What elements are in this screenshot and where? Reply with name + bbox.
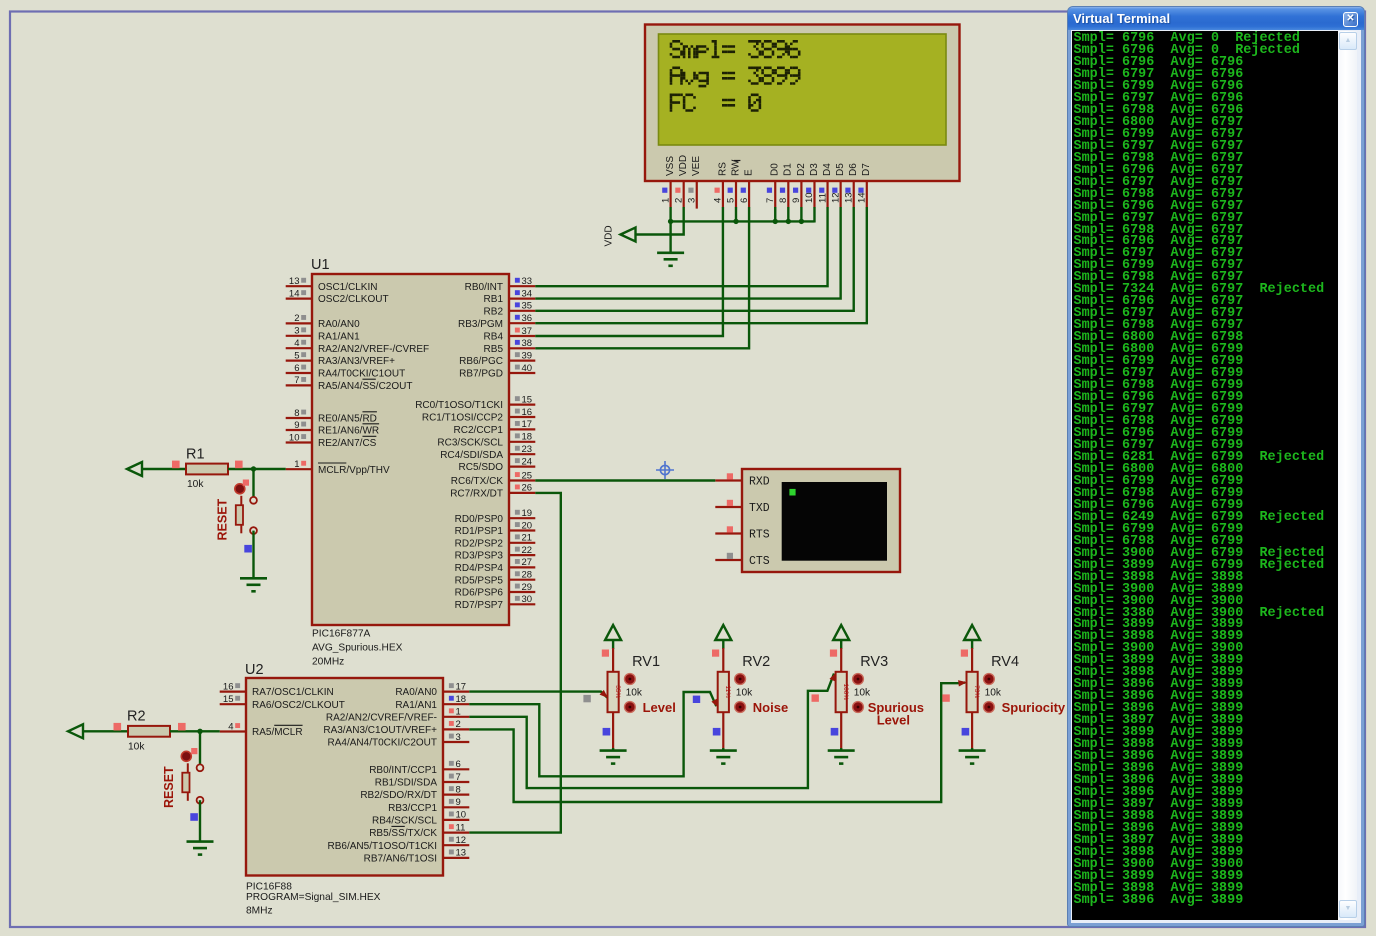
svg-text:D5: D5 xyxy=(835,163,846,176)
U1 pin 6 RA4/T0CKI/C1OUT xyxy=(286,372,312,374)
svg-text:22: 22 xyxy=(522,545,533,556)
RV3 wiper arrowhead xyxy=(829,673,836,682)
U2 pin 15 RA6/OSC2/CLKOUT xyxy=(220,703,246,705)
svg-text:4: 4 xyxy=(294,338,299,349)
LCD pin 4 RS xyxy=(722,181,724,207)
LCD screen xyxy=(659,34,947,145)
wire junction down to reset button xyxy=(252,469,254,497)
U1 pin 2 RA0/AN0 xyxy=(286,322,312,324)
svg-text:D2: D2 xyxy=(796,163,807,176)
resistor R1 body xyxy=(186,464,228,475)
U2 pin 17 RA0/AN0 xyxy=(443,690,469,692)
svg-text:RB5/SS/TX/CK: RB5/SS/TX/CK xyxy=(369,828,437,839)
svg-text:RD3/PSP3: RD3/PSP3 xyxy=(455,551,504,562)
svg-text:3: 3 xyxy=(456,732,461,743)
svg-text:6: 6 xyxy=(294,363,299,374)
svg-text:29: 29 xyxy=(522,582,533,593)
wire RB1 to LCD D5 xyxy=(535,207,840,299)
svg-text:RB6/AN5/T1OSO/T1CKI: RB6/AN5/T1OSO/T1CKI xyxy=(328,841,437,852)
U2 pin 16 RA7/OSC1/CLKIN xyxy=(220,690,246,692)
svg-text:RD4/PSP4: RD4/PSP4 xyxy=(455,563,504,574)
RV2 adjust buttons xyxy=(735,674,746,685)
power arrow above RV3 xyxy=(833,625,849,640)
svg-text:R2: R2 xyxy=(127,709,146,725)
svg-text:CTS: CTS xyxy=(749,555,770,568)
LCD pin 13 D6 xyxy=(853,181,855,207)
wire: D0(7) stub to bus xyxy=(774,207,776,223)
power arrow at R2 xyxy=(68,724,83,738)
svg-text:RV3: RV3 xyxy=(860,654,888,670)
svg-text:RESET: RESET xyxy=(162,766,176,808)
svg-text:RW: RW xyxy=(730,159,741,176)
svg-text:10: 10 xyxy=(289,432,300,443)
ground symbol (U2 reset) xyxy=(187,840,214,843)
LCD pin 7 D0 xyxy=(774,181,776,207)
svg-text:23: 23 xyxy=(522,444,533,455)
svg-text:20MHz: 20MHz xyxy=(312,657,344,668)
svg-text:RB3/PGM: RB3/PGM xyxy=(458,319,503,330)
U1 pin 35 RB2 xyxy=(509,310,535,312)
svg-text:PIC16F877A: PIC16F877A xyxy=(312,629,371,640)
svg-text:VEE: VEE xyxy=(691,156,702,176)
U2 pin 3 RA4/AN4/T0CKI/C2OUT xyxy=(443,741,469,743)
svg-text:D1: D1 xyxy=(783,163,794,176)
push button RESET (U1) xyxy=(250,497,257,504)
U1 pin 20 RD1/PSP1 xyxy=(509,529,535,531)
svg-text:RC6/TX/CK: RC6/TX/CK xyxy=(451,476,504,487)
svg-text:RC0/T1OSO/T1CKI: RC0/T1OSO/T1CKI xyxy=(415,400,503,411)
svg-text:10: 10 xyxy=(804,192,815,203)
U1 pin 23 RC4/SDI/SDA xyxy=(509,453,535,455)
svg-text:30: 30 xyxy=(522,594,533,605)
svg-text:73%: 73% xyxy=(973,685,980,698)
svg-text:100%: 100% xyxy=(842,683,849,700)
svg-text:RD5/PSP5: RD5/PSP5 xyxy=(455,575,504,586)
svg-text:RV1: RV1 xyxy=(632,654,660,670)
RV4 wiper arrowhead xyxy=(958,680,967,686)
red state squares on R2 net xyxy=(114,723,122,731)
svg-text:TXD: TXD xyxy=(749,502,770,515)
wire button to ground (U2) xyxy=(199,800,201,841)
svg-text:RA0/AN0: RA0/AN0 xyxy=(395,687,437,698)
svg-text:RB1: RB1 xyxy=(484,294,504,305)
power arrow above RV1 xyxy=(605,625,621,640)
svg-text:7: 7 xyxy=(456,772,461,783)
wire RB3 to LCD D7 xyxy=(535,207,867,323)
red state square RV4 wiper xyxy=(942,694,949,701)
LCD pin 6 E xyxy=(748,181,750,207)
svg-text:17: 17 xyxy=(456,681,467,692)
U1 pin 30 RD7/PSP7 xyxy=(509,603,535,605)
wire: D2(9) stub to bus xyxy=(800,207,802,223)
U1 pin 3 RA1/AN1 xyxy=(286,335,312,337)
op U1 PIC16F877A chip body xyxy=(312,274,509,625)
svg-text:3: 3 xyxy=(294,326,299,337)
svg-text:Level: Level xyxy=(877,713,910,728)
U2 pin 1 RA2/AN2/CVREF/VREF- xyxy=(443,716,469,718)
wire R2 to U2 pin4 xyxy=(170,730,220,732)
ground symbol (U1 reset) xyxy=(240,577,267,580)
svg-text:13: 13 xyxy=(289,276,300,287)
svg-text:16: 16 xyxy=(223,681,234,692)
wire junction down to reset button (U2) xyxy=(199,731,201,764)
svg-text:15: 15 xyxy=(223,694,234,705)
U1 pin 38 RB5 xyxy=(509,347,535,349)
svg-text:RB0/INT/CCP1: RB0/INT/CCP1 xyxy=(369,765,437,776)
svg-text:37: 37 xyxy=(522,326,533,337)
svg-text:D4: D4 xyxy=(822,163,833,176)
svg-text:RE2/AN7/CS: RE2/AN7/CS xyxy=(318,438,377,449)
svg-text:RA5/MCLR: RA5/MCLR xyxy=(252,727,303,738)
push button RESET (U2) xyxy=(197,764,204,771)
wire: D3(10) stub to bus corner xyxy=(813,207,815,223)
ground bus horizontal (VSS,RW,D0,D1,D2,D3) xyxy=(671,220,815,222)
svg-text:10k: 10k xyxy=(736,688,753,699)
svg-text:OSC1/CLKIN: OSC1/CLKIN xyxy=(318,282,377,293)
RV1 bottom terminal + ground xyxy=(612,712,614,749)
svg-text:17: 17 xyxy=(522,419,533,430)
wire U2 RA0 to RV1 wiper xyxy=(469,692,607,698)
wire: VDD(2) down then left to VDD power arrow xyxy=(635,207,684,235)
U1 pin 10 RE2/AN7/CS xyxy=(286,441,312,443)
op U2 PIC16F88 chip body xyxy=(246,678,443,876)
svg-text:PROGRAM=Signal_SIM.HEX: PROGRAM=Signal_SIM.HEX xyxy=(246,892,381,903)
svg-text:10k: 10k xyxy=(128,742,145,753)
svg-text:RB3/CCP1: RB3/CCP1 xyxy=(388,803,437,814)
terminal screen xyxy=(782,482,887,561)
svg-text:9: 9 xyxy=(791,198,802,203)
svg-text:6: 6 xyxy=(456,759,461,770)
svg-text:RA6/OSC2/CLKOUT: RA6/OSC2/CLKOUT xyxy=(252,700,345,711)
svg-text:28: 28 xyxy=(522,570,533,581)
svg-text:RB2/SDO/RX/DT: RB2/SDO/RX/DT xyxy=(360,790,437,801)
wire RB0 to LCD D4 xyxy=(535,207,827,286)
red state square RV3 wiper xyxy=(812,694,819,701)
U2 pin 12 RB6/AN5/T1OSO/T1CKI xyxy=(443,844,469,846)
wire R1 to U1 MCLR pin1 xyxy=(228,468,286,470)
svg-text:1: 1 xyxy=(294,459,299,470)
wire RB5 to LCD E xyxy=(535,207,749,348)
svg-text:RA5/AN4/SS/C2OUT: RA5/AN4/SS/C2OUT xyxy=(318,381,412,392)
svg-text:RB7/AN6/T1OSI: RB7/AN6/T1OSI xyxy=(364,854,437,865)
svg-text:14: 14 xyxy=(857,192,868,203)
U1 pin 15 RC0/T1OSO/T1CKI xyxy=(509,404,535,406)
terminal pin TXD xyxy=(715,506,742,508)
wire button to ground xyxy=(252,531,254,578)
wire U1 RC6/TX to terminal RXD xyxy=(535,479,715,481)
U1 pin 21 RD2/PSP2 xyxy=(509,542,535,544)
LCD text line 2: Avg = 3899 xyxy=(670,67,801,88)
junction at R1/reset xyxy=(251,466,256,471)
svg-text:12: 12 xyxy=(456,835,467,846)
RV2 wiper arrowhead xyxy=(711,699,718,708)
wire U2 RA3 to RV4 wiper xyxy=(469,683,965,802)
svg-text:8MHz: 8MHz xyxy=(246,906,273,917)
svg-text:26: 26 xyxy=(522,483,533,494)
U1 pin 36 RB3/PGM xyxy=(509,322,535,324)
terminal pin RXD xyxy=(715,479,742,481)
LCD pin 5 RW xyxy=(735,181,737,207)
svg-text:RE1/AN6/WR: RE1/AN6/WR xyxy=(318,426,379,437)
blue state square RV2 wiper xyxy=(693,696,700,703)
svg-text:RA7/OSC1/CLKIN: RA7/OSC1/CLKIN xyxy=(252,687,334,698)
U1 pin 22 RD3/PSP3 xyxy=(509,554,535,556)
svg-text:VDD: VDD xyxy=(604,225,615,246)
power arrow above RV2 xyxy=(715,625,731,640)
terminal pin RTS xyxy=(715,532,742,534)
U2 pin 6 RB0/INT/CCP1 xyxy=(443,768,469,770)
U1 pin 37 RB4 xyxy=(509,335,535,337)
LCD pin 2 VDD xyxy=(683,181,685,207)
RV2 top terminal wire xyxy=(722,640,724,649)
LCD pin 11 D4 xyxy=(826,181,828,207)
svg-text:RB0/INT: RB0/INT xyxy=(465,282,503,293)
potentiometer RV2 body xyxy=(718,672,729,712)
svg-text:RD7/PSP7: RD7/PSP7 xyxy=(455,600,504,611)
wire U2 RA2 to RV3 wiper xyxy=(469,674,834,789)
svg-text:RC7/RX/DT: RC7/RX/DT xyxy=(450,489,503,500)
svg-text:D6: D6 xyxy=(848,163,859,176)
svg-text:9: 9 xyxy=(456,797,461,808)
U1 pin 7 RA5/AN4/SS/C2OUT xyxy=(286,384,312,386)
RV4 bottom terminal + ground xyxy=(971,712,973,749)
U2 pin 8 RB2/SDO/RX/DT xyxy=(443,793,469,795)
svg-text:RB7/PGD: RB7/PGD xyxy=(459,369,503,380)
U2 pin 9 RB3/CCP1 xyxy=(443,806,469,808)
wire RB4 to LCD RS xyxy=(535,207,723,336)
svg-text:MCLR/Vpp/THV: MCLR/Vpp/THV xyxy=(318,465,390,476)
U2 pin 18 RA1/AN1 xyxy=(443,703,469,705)
blue state square on reset net xyxy=(244,545,252,553)
U1 pin 9 RE1/AN6/WR xyxy=(286,429,312,431)
svg-text:RA3/AN3/C1OUT/VREF+: RA3/AN3/C1OUT/VREF+ xyxy=(323,725,437,736)
svg-text:RA1/AN1: RA1/AN1 xyxy=(395,700,437,711)
U1 pin 16 RC1/T1OSI/CCP2 xyxy=(509,416,535,418)
U1 pin 33 RB0/INT xyxy=(509,285,535,287)
U1 pin 8 RE0/AN5/RD xyxy=(286,417,312,419)
U1 pin 28 RD5/PSP5 xyxy=(509,579,535,581)
svg-text:14: 14 xyxy=(289,288,300,299)
svg-text:20: 20 xyxy=(522,520,533,531)
svg-text:7: 7 xyxy=(294,375,299,386)
blue state square (U2 reset net) xyxy=(190,813,198,821)
svg-text:5: 5 xyxy=(294,350,299,361)
origin crosshair marker xyxy=(656,461,674,479)
potentiometer RV4 body xyxy=(967,672,978,712)
svg-text:RB6/PGC: RB6/PGC xyxy=(459,356,503,367)
svg-text:38: 38 xyxy=(522,338,533,349)
terminal pin CTS xyxy=(715,559,742,561)
LCD pin 10 D3 xyxy=(813,181,815,207)
svg-text:35%: 35% xyxy=(614,685,621,698)
svg-text:33: 33 xyxy=(522,276,533,287)
junction dots on ground bus xyxy=(668,219,673,224)
U1 pin 4 RA2/AN2/VREF-/CVREF xyxy=(286,347,312,349)
wire U1 RC7/RX down to U2 RB5/TX xyxy=(469,493,561,833)
RV1 adjust buttons xyxy=(625,674,636,685)
U1 pin 1 MCLR/Vpp/THV xyxy=(286,468,312,470)
U1 pin 17 RC2/CCP1 xyxy=(509,428,535,430)
U1 pin 40 RB7/PGD xyxy=(509,372,535,374)
RV2 bottom terminal + ground xyxy=(722,712,724,749)
blue state square under RV2 xyxy=(713,728,721,736)
svg-text:RA4/T0CKI/C1OUT: RA4/T0CKI/C1OUT xyxy=(318,369,405,380)
U2 pin 7 RB1/SDI/SDA xyxy=(443,781,469,783)
svg-text:U1: U1 xyxy=(311,257,330,273)
potentiometer RV3 body xyxy=(836,672,847,712)
svg-text:10k: 10k xyxy=(985,688,1002,699)
svg-text:RB4/SCK/SCL: RB4/SCK/SCL xyxy=(372,816,437,827)
svg-text:E: E xyxy=(743,169,754,176)
svg-text:RB2: RB2 xyxy=(484,306,504,317)
wire RB2 to LCD D6 xyxy=(535,207,853,311)
blue state square under RV3 xyxy=(831,728,839,736)
svg-text:RC2/CCP1: RC2/CCP1 xyxy=(454,425,504,436)
junction at R2/reset xyxy=(197,729,202,734)
wire: VSS(1) down to ground bus xyxy=(669,207,671,253)
svg-text:RA2/AN2/VREF-/CVREF: RA2/AN2/VREF-/CVREF xyxy=(318,344,429,355)
LCD text line 3: FC = 0 xyxy=(670,94,761,112)
svg-text:AVG_Spurious.HEX: AVG_Spurious.HEX xyxy=(312,643,403,654)
wire: D1(8) stub to bus xyxy=(787,207,789,223)
svg-text:RTS: RTS xyxy=(749,528,770,541)
U1 pin 14 OSC2/CLKOUT xyxy=(286,298,312,300)
LCD module LM016L body xyxy=(645,25,960,182)
svg-text:12: 12 xyxy=(830,192,841,203)
wire arrow to R2 xyxy=(83,730,128,732)
svg-text:35: 35 xyxy=(522,301,533,312)
svg-text:Noise: Noise xyxy=(753,700,788,715)
RV3 adjust buttons xyxy=(853,674,864,685)
svg-text:RC4/SDI/SDA: RC4/SDI/SDA xyxy=(440,450,503,461)
svg-text:RD0/PSP0: RD0/PSP0 xyxy=(455,514,504,525)
svg-text:10k: 10k xyxy=(854,688,871,699)
blue state square under RV4 xyxy=(962,728,970,736)
gray state square RV1 wiper xyxy=(583,695,590,702)
svg-text:RS: RS xyxy=(717,162,728,176)
svg-text:8: 8 xyxy=(778,198,789,203)
svg-text:RD2/PSP2: RD2/PSP2 xyxy=(455,538,504,549)
U1 pin 25 RC6/TX/CK xyxy=(509,479,535,481)
blue state square under RV1 xyxy=(603,728,611,736)
RV4 top terminal wire xyxy=(971,640,973,649)
svg-text:RB1/SDI/SDA: RB1/SDI/SDA xyxy=(375,778,438,789)
svg-text:Spuriocity: Spuriocity xyxy=(1002,700,1066,715)
RV4 adjust buttons xyxy=(984,674,995,685)
svg-text:D7: D7 xyxy=(861,163,872,176)
svg-text:10k: 10k xyxy=(187,479,204,490)
svg-text:2: 2 xyxy=(294,313,299,324)
svg-text:9: 9 xyxy=(294,420,299,431)
svg-text:16: 16 xyxy=(522,407,533,418)
svg-text:40: 40 xyxy=(522,363,533,374)
svg-text:RC1/T1OSI/CCP2: RC1/T1OSI/CCP2 xyxy=(422,413,504,424)
svg-text:6: 6 xyxy=(739,198,750,203)
LCD pin 9 D2 xyxy=(800,181,802,207)
svg-text:2: 2 xyxy=(673,198,684,203)
LCD text line 1: Smpl= 3896 xyxy=(670,40,801,58)
svg-text:U2: U2 xyxy=(245,662,264,678)
svg-text:RB5: RB5 xyxy=(484,344,504,355)
svg-text:RA4/AN4/T0CKI/C2OUT: RA4/AN4/T0CKI/C2OUT xyxy=(328,738,437,749)
U1 pin 24 RC5/SDO xyxy=(509,466,535,468)
svg-text:1: 1 xyxy=(660,198,671,203)
svg-text:RA0/AN0: RA0/AN0 xyxy=(318,319,360,330)
svg-text:15: 15 xyxy=(522,394,533,405)
virtual terminal component body xyxy=(742,469,900,572)
svg-text:39: 39 xyxy=(522,350,533,361)
svg-text:RXD: RXD xyxy=(749,475,770,488)
svg-text:2: 2 xyxy=(456,719,461,730)
LCD pin 3 VEE xyxy=(696,181,698,209)
svg-text:8: 8 xyxy=(456,784,461,795)
svg-text:13: 13 xyxy=(843,192,854,203)
resistor R2 body xyxy=(128,726,170,737)
svg-text:VSS: VSS xyxy=(665,156,676,176)
U1 pin 13 OSC1/CLKIN xyxy=(286,285,312,287)
svg-text:1: 1 xyxy=(456,707,461,718)
svg-text:11%: 11% xyxy=(724,686,731,699)
RV1 wiper arrowhead xyxy=(600,690,608,698)
LCD pin 8 D1 xyxy=(787,181,789,207)
svg-text:RA3/AN3/VREF+: RA3/AN3/VREF+ xyxy=(318,356,395,367)
wire arrow to R1 xyxy=(142,468,186,470)
svg-text:RA1/AN1: RA1/AN1 xyxy=(318,331,360,342)
svg-text:19: 19 xyxy=(522,508,533,519)
svg-text:RD6/PSP6: RD6/PSP6 xyxy=(455,588,504,599)
VDD power arrow xyxy=(621,228,636,242)
svg-text:8: 8 xyxy=(294,408,299,419)
svg-text:36: 36 xyxy=(522,313,533,324)
U1 pin 34 RB1 xyxy=(509,298,535,300)
terminal cursor block xyxy=(789,489,795,496)
svg-text:D0: D0 xyxy=(770,163,781,176)
svg-text:RC5/SDO: RC5/SDO xyxy=(459,462,504,473)
U1 pin 29 RD6/PSP6 xyxy=(509,591,535,593)
RV3 top terminal wire xyxy=(840,640,842,649)
svg-text:25: 25 xyxy=(522,470,533,481)
svg-text:RA2/AN2/CVREF/VREF-: RA2/AN2/CVREF/VREF- xyxy=(326,712,437,723)
wire U2 RA1 to RV2 wiper xyxy=(469,692,716,776)
svg-text:D3: D3 xyxy=(809,163,820,176)
U1 pin 18 RC3/SCK/SCL xyxy=(509,441,535,443)
svg-text:PIC16F88: PIC16F88 xyxy=(246,882,292,893)
svg-text:27: 27 xyxy=(522,557,533,568)
U1 pin 5 RA3/AN3/VREF+ xyxy=(286,360,312,362)
svg-text:5: 5 xyxy=(726,198,737,203)
U1 pin 39 RB6/PGC xyxy=(509,360,535,362)
RV1 top terminal wire xyxy=(612,640,614,649)
svg-text:13: 13 xyxy=(456,848,467,859)
svg-text:3: 3 xyxy=(686,198,697,203)
U1 pin 27 RD4/PSP4 xyxy=(509,566,535,568)
svg-text:21: 21 xyxy=(522,533,533,544)
svg-text:RESET: RESET xyxy=(216,498,230,540)
red state squares on R1 net xyxy=(172,461,180,469)
U2 pin 4 RA5/MCLR xyxy=(220,730,246,732)
svg-text:RB4: RB4 xyxy=(484,332,504,343)
svg-text:18: 18 xyxy=(456,694,467,705)
power arrow above RV4 xyxy=(964,625,980,640)
LCD pin 14 D7 xyxy=(866,181,868,207)
svg-text:10k: 10k xyxy=(626,688,643,699)
svg-text:18: 18 xyxy=(522,432,533,443)
LCD pin 1 VSS xyxy=(669,181,671,207)
svg-text:7: 7 xyxy=(765,198,776,203)
svg-text:10: 10 xyxy=(456,810,467,821)
U2 pin 10 RB4/SCK/SCL xyxy=(443,819,469,821)
LCD pin 12 D5 xyxy=(840,181,842,207)
